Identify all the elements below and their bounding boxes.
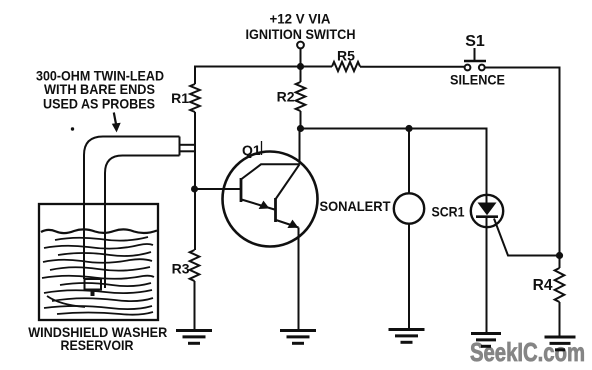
svg-text:IGNITION SWITCH: IGNITION SWITCH	[246, 26, 356, 42]
resistor R5	[332, 62, 360, 71]
resistor R3	[190, 250, 200, 281]
node junction sonalert top	[405, 125, 412, 132]
arrow from label to twin-lead	[114, 113, 116, 125]
svg-text:SONALERT: SONALERT	[320, 198, 391, 214]
resistor R2	[296, 82, 306, 111]
svg-text:USED AS PROBES: USED AS PROBES	[43, 96, 155, 112]
node junction Q1 base	[191, 186, 198, 193]
svg-text:SILENCE: SILENCE	[450, 72, 505, 88]
water surface	[41, 229, 157, 233]
wire top rail right segment and right drop	[485, 68, 560, 269]
wire SCR cathode to ground	[486, 216, 488, 334]
SCR1	[471, 195, 503, 227]
wire top rail left segment	[194, 66, 332, 68]
wire collector drop from rail2	[299, 129, 301, 165]
wire R3 to ground	[194, 281, 196, 330]
svg-text:+12 V VIA: +12 V VIA	[270, 11, 331, 27]
reservoir tank	[39, 204, 158, 320]
ground R3	[176, 331, 212, 344]
wire Q1 base	[195, 188, 241, 190]
resistor R1	[190, 84, 200, 112]
speck	[71, 127, 74, 130]
switch S1	[464, 48, 486, 70]
node junction R2 bottom	[297, 125, 304, 132]
wire R1 branch: top rail to twin-lead to R3	[194, 67, 196, 251]
wire Q1 emitter to ground	[298, 228, 300, 331]
ground sonalert	[389, 330, 425, 343]
svg-text:SCR1: SCR1	[432, 204, 465, 220]
svg-text:Q1: Q1	[242, 142, 261, 158]
twin-lead cable	[84, 137, 195, 289]
Q1 emitter arrow 2	[288, 221, 297, 228]
wire +12V stem	[300, 48, 302, 67]
wire R2 drop	[300, 67, 302, 129]
wire SCR gate	[494, 219, 560, 256]
svg-text:RESERVOIR: RESERVOIR	[61, 337, 134, 353]
water squiggles	[42, 237, 154, 315]
terminal +12V	[297, 42, 304, 49]
svg-text:S1: S1	[465, 33, 485, 50]
sonalert circle	[394, 193, 424, 223]
svg-text:R3: R3	[172, 261, 190, 277]
wire top rail mid segment	[360, 66, 464, 68]
svg-text:R2: R2	[277, 89, 295, 105]
transistor Q1 (Darlington)	[223, 152, 318, 247]
wire rail2: R2 bottom to SCR anode	[301, 129, 487, 203]
ground R4	[545, 337, 576, 350]
wire sonalert drop	[408, 129, 410, 330]
Q1 emitter arrow 1	[260, 202, 269, 209]
svg-text:R4: R4	[533, 277, 553, 294]
node junction at +12 rail	[297, 63, 304, 70]
svg-text:SeekIC.com: SeekIC.com	[470, 337, 585, 367]
resistor R4	[555, 268, 565, 302]
ground SCR cathode	[471, 334, 501, 347]
wire R4 to ground	[559, 302, 561, 337]
svg-text:R5: R5	[337, 48, 355, 64]
Q1 label tick	[261, 141, 263, 155]
ground Q1 emitter	[280, 331, 316, 344]
node junction gate / R4	[556, 252, 563, 259]
probe tip	[85, 279, 102, 290]
svg-text:R1: R1	[171, 90, 189, 106]
